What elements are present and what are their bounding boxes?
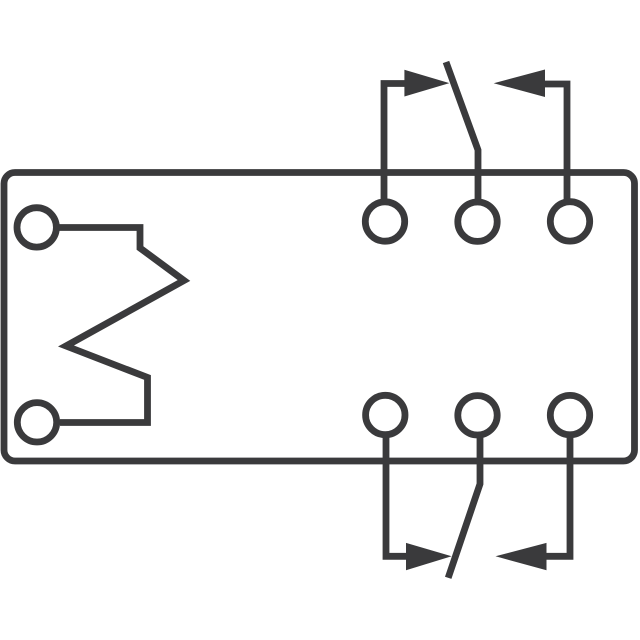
- coil L1 zigzag: [59, 228, 184, 423]
- wire: bottom NO stem and hook to arrow: [386, 436, 414, 557]
- wire: bottom NC stem and hook to arrow: [544, 436, 570, 557]
- arrowhead bottom-right (points left): [496, 543, 547, 570]
- top NC contact terminal circle (pin 8): [550, 202, 589, 241]
- relay body outline K1: [4, 173, 635, 462]
- wire: top NO stem and hook to arrow: [384, 84, 412, 202]
- coil pin 1 terminal circle: [17, 208, 56, 247]
- bottom common terminal circle (pin 5): [458, 396, 497, 435]
- switch blade S2 (bottom pole): [448, 436, 480, 578]
- switch blade S1 (top pole) with common stem (pin 6): [446, 62, 478, 201]
- arrowhead top-right (points left): [494, 70, 545, 98]
- top common terminal circle (pin 6): [458, 202, 497, 241]
- arrowhead bottom-left (points right): [406, 543, 452, 570]
- bottom NO contact terminal circle (pin 3): [366, 395, 405, 434]
- coil pin 2 terminal circle: [17, 403, 56, 442]
- wire: top NC stem and hook to arrow: [542, 84, 567, 201]
- arrowhead top-left (points right): [404, 70, 449, 97]
- top NO contact terminal circle (pin 4): [365, 202, 404, 241]
- bottom NC contact terminal circle (pin 7): [550, 395, 589, 434]
